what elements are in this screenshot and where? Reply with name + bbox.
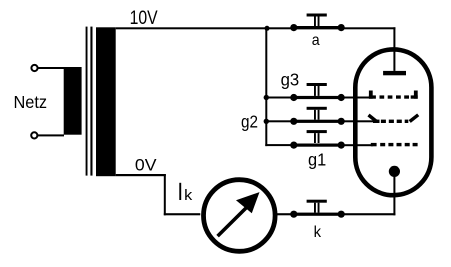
tube grid g1 <box>371 143 418 146</box>
transformer T1 primary winding <box>64 67 82 135</box>
svg-text:k: k <box>184 188 193 204</box>
wire switch g1 to tube <box>341 144 373 146</box>
wire anode lead vertical <box>393 27 395 71</box>
switch k <box>290 200 345 218</box>
wire bus to switch g1 <box>265 144 294 146</box>
svg-text:a: a <box>312 32 320 49</box>
switch g3 <box>290 83 345 101</box>
wire bus to switch g3 <box>266 97 294 99</box>
svg-text:g3: g3 <box>281 69 300 89</box>
wire 0V horizontal from secondary <box>116 174 166 176</box>
wire 10V rail <box>116 27 396 29</box>
wire bus to switch g2 <box>266 120 294 122</box>
transformer T1 secondary winding <box>96 27 116 176</box>
tube V1 envelope <box>355 49 431 195</box>
svg-text:k: k <box>314 224 322 241</box>
svg-text:0V: 0V <box>135 156 157 175</box>
wire cathode to switch k <box>341 213 395 215</box>
switch a <box>290 14 345 32</box>
node bus g2 <box>264 119 269 124</box>
svg-text:10V: 10V <box>130 8 158 29</box>
node bus g3 <box>264 95 269 100</box>
label Ik <box>179 183 181 200</box>
wire 0V vertical drop <box>164 174 166 215</box>
wire cathode lead vertical <box>393 171 395 215</box>
ammeter M1 body <box>204 180 276 252</box>
switch g1 <box>290 130 345 149</box>
tube grid g2 <box>369 115 419 123</box>
svg-text:g1: g1 <box>308 149 326 169</box>
wire 0V to ammeter <box>164 213 201 215</box>
wire grid bus vertical <box>265 28 267 146</box>
ammeter M1 needle head <box>236 192 260 213</box>
wire upper terminal to primary <box>38 67 64 69</box>
transformer core line 1 <box>86 27 88 176</box>
tube grid g3 <box>369 91 418 99</box>
tube cathode <box>389 166 400 177</box>
svg-text:g2: g2 <box>241 112 258 132</box>
wire switch g2 to tube <box>341 120 374 122</box>
wire switch g3 to tube <box>341 97 369 99</box>
wire ammeter to switch k <box>276 213 294 215</box>
switch g2 <box>290 107 345 125</box>
node junction 10V bus <box>265 26 270 31</box>
ammeter M1 needle shaft <box>218 207 247 236</box>
transformer core line 2 <box>90 27 92 176</box>
wire lower terminal to primary <box>37 134 64 136</box>
terminal upper <box>31 65 37 71</box>
tube anode plate <box>383 71 406 75</box>
svg-text:Netz: Netz <box>14 92 48 112</box>
terminal lower <box>31 132 37 138</box>
